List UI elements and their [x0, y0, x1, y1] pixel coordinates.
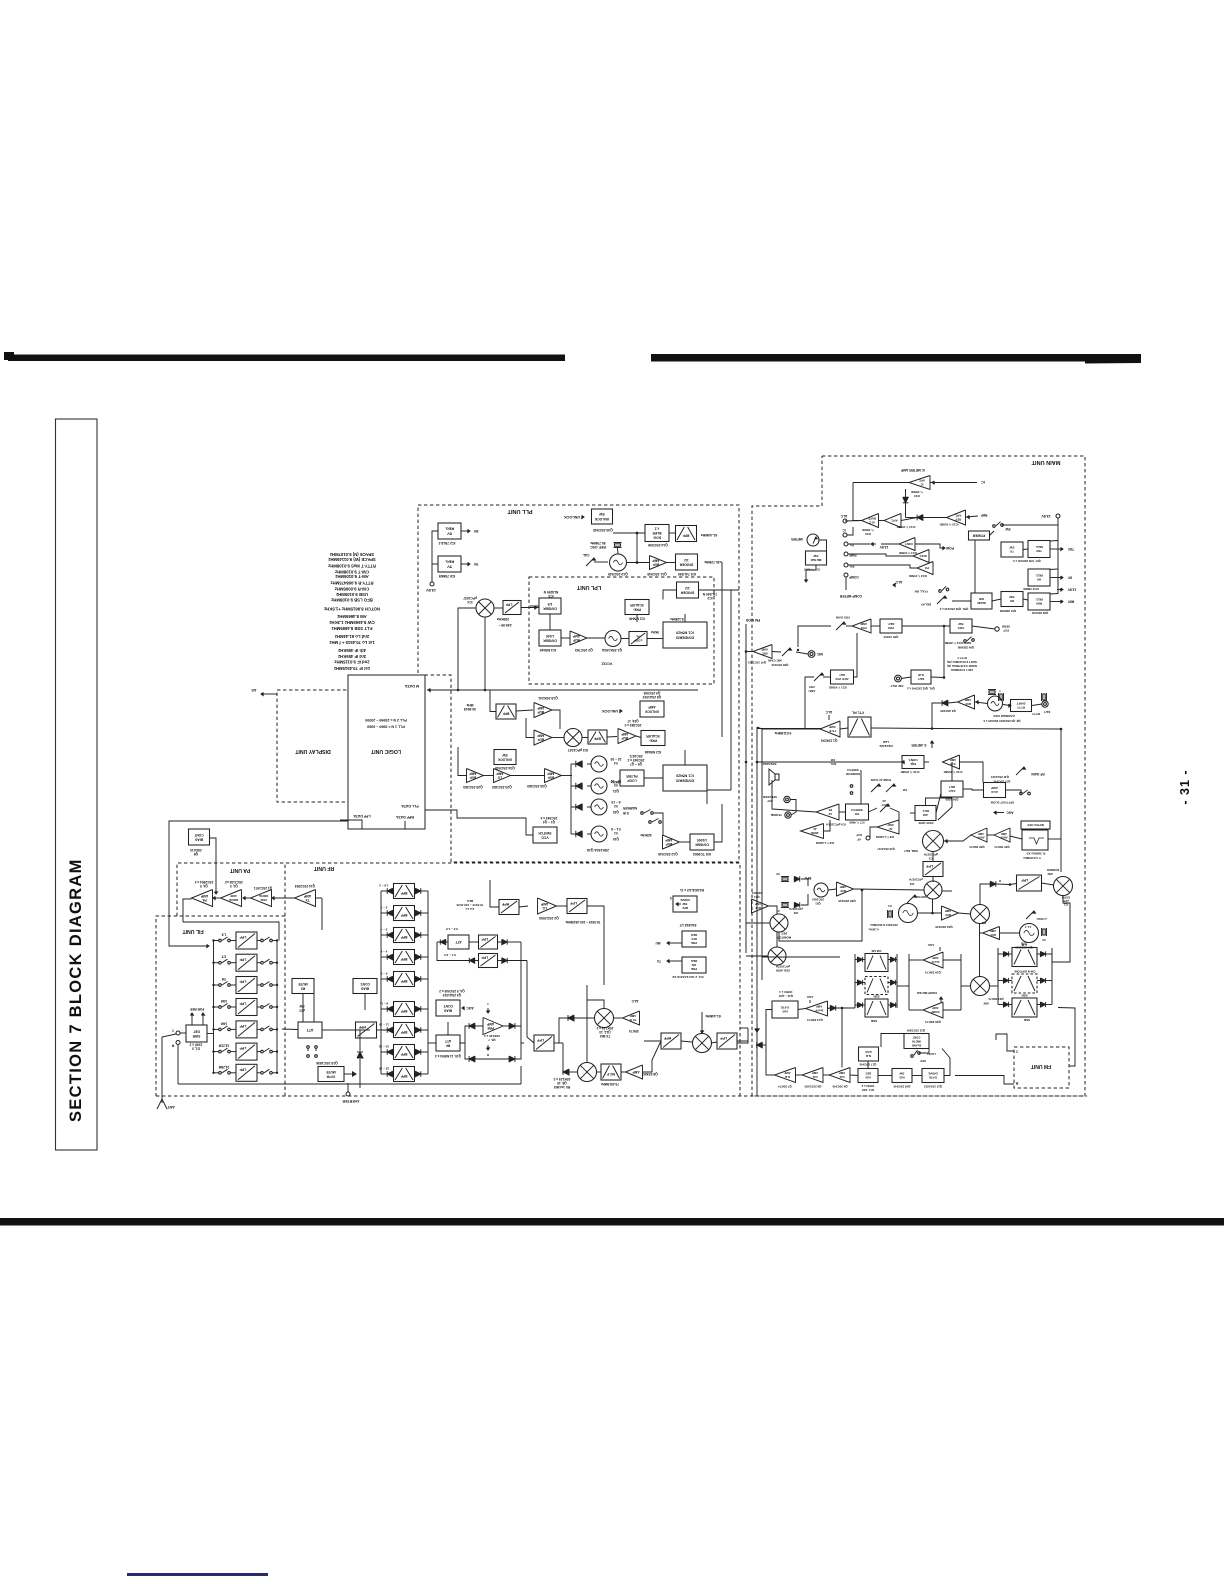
label UNLOCK PLL top [564, 515, 584, 519]
wire 13.8V rail main [1023, 518, 1058, 600]
label IC2 b [981, 921, 986, 925]
label IC3 NL8290 N [543, 590, 558, 598]
BPF 61.44MHz [676, 526, 697, 542]
po amp IC13c [917, 562, 933, 575]
label MONITOR DET [776, 907, 803, 939]
svg-text:IC10 ¼ 4558D: IC10 ¼ 4558D [944, 770, 963, 774]
wire swr to lpf bank [207, 1033, 214, 1035]
svg-text:IC5 74LS90: IC5 74LS90 [678, 572, 696, 576]
label band 3.5 [222, 955, 227, 959]
svg-text:AGC: AGC [806, 995, 814, 999]
ssb mod mixer [768, 947, 786, 965]
rail comp row [942, 890, 953, 892]
svg-text:IC4 M5449: IC4 M5449 [540, 648, 557, 652]
diode BPF 2 ~ 3 out [415, 910, 421, 916]
am if amp Q19 3SK74 [923, 952, 943, 968]
svg-text:AMP: AMP [536, 734, 544, 738]
svg-text:Q61, Q62 2SC945 x 2: Q61, Q62 2SC945 x 2 [907, 687, 935, 691]
marker amp Q64 2SK241 [752, 899, 769, 913]
label Q8 2SC1583 [804, 1085, 821, 1089]
pw sol labels [829, 758, 861, 804]
label Q2 2SC763 [575, 648, 593, 652]
terminal COMP [844, 573, 848, 577]
label 8V out [1050, 576, 1072, 580]
label 30.9615 MHz [464, 703, 476, 711]
svg-text:x 2: x 2 [655, 526, 660, 530]
page number -31- [1178, 769, 1192, 804]
svg-text:AMP: AMP [540, 902, 548, 906]
svg-text:SW: SW [299, 1004, 304, 1008]
svg-text:Q9 2SC945: Q9 2SC945 [832, 1085, 847, 1089]
label Q61 Q62 2SC945 [907, 687, 935, 691]
crystal REF OSC [614, 543, 622, 548]
label SEND IC12 [945, 641, 974, 650]
svg-text:SW: SW [1009, 595, 1014, 599]
meter symbol [807, 534, 819, 546]
svg-text:BPF: BPF [401, 1074, 408, 1078]
wire tx amp feed [321, 898, 323, 930]
FIL UNIT label [182, 928, 204, 934]
svg-text:Q25 2SC383: Q25 2SC383 [463, 785, 483, 789]
svg-text:320KHz: 320KHz [640, 833, 652, 837]
label KEY rtty [1031, 710, 1050, 716]
label Q24 3SK74 MIX [983, 997, 1003, 1006]
svg-text:T: T [1015, 1049, 1018, 1053]
af amp IC8 [877, 820, 899, 834]
svg-text:AMP: AMP [991, 786, 998, 790]
LPL UNIT boundary [529, 577, 714, 684]
unlock switch Q34 [494, 750, 516, 765]
vertical rails rf [521, 942, 534, 1043]
svg-text:AMP: AMP [762, 648, 768, 652]
label LOOP FIL [634, 635, 643, 643]
wire LPF 24,28M [212, 1072, 278, 1074]
diode BPF 4 ~ 6 out [415, 954, 421, 960]
divider 1/2 IC5 74LS90 [676, 554, 698, 570]
pre scaler LPL [625, 600, 649, 615]
terminal R fil [171, 1041, 180, 1048]
svg-text:AMP: AMP [632, 1070, 640, 1074]
5V output wire [461, 562, 478, 566]
send switch box [971, 593, 992, 609]
svg-text:RF: RF [446, 1043, 450, 1047]
diode BPF 8 ~ 11 out [415, 1006, 421, 1012]
svg-text:2SK125 x 2: 2SK125 x 2 [484, 1034, 500, 1038]
wire af rows [772, 760, 1021, 838]
svg-text:LPF: LPF [505, 603, 513, 607]
svg-text:µPC1037H: µPC1037H [776, 965, 790, 969]
svg-text:IC8 ¼ LA2902: IC8 ¼ LA2902 [815, 841, 834, 845]
bottom units boundary line [156, 1095, 1087, 1097]
svg-text:AMP: AMP [784, 1071, 790, 1075]
svg-text:AMP: AMP [840, 885, 846, 889]
blue pen underline mark [127, 1573, 268, 1576]
svg-text:SHIFT: SHIFT [1016, 701, 1025, 705]
svg-text:IC8 ¼ LA2902: IC8 ¼ LA2902 [875, 835, 894, 839]
svg-text:CONT.: CONT. [908, 758, 917, 762]
diode BPF 3 ~ 4 in [387, 932, 393, 938]
wire 1st lo chain [490, 880, 604, 930]
svg-text:BPF: BPF [401, 979, 408, 983]
wire fil bottom run [178, 1045, 521, 1084]
wire VCO V2 [571, 806, 591, 808]
svg-text:3rd IF 455KHz: 3rd IF 455KHz [338, 654, 366, 659]
bus column C [998, 948, 1052, 1005]
svg-text:BPF: BPF [401, 935, 408, 939]
label ANT [167, 1105, 175, 1109]
svg-text:5.12MHz: 5.12MHz [670, 617, 684, 621]
diode BPF 1.8 ~ 2 out [415, 888, 421, 894]
speaker symbol [769, 769, 779, 785]
terminal 13.8V main [1056, 514, 1060, 518]
switch LPF 10M out [261, 1004, 273, 1009]
label 230KHz [497, 617, 510, 621]
svg-text:BUFF: BUFF [868, 517, 876, 521]
label SSB colA [870, 1019, 877, 1023]
svg-text:LPF: LPF [481, 956, 489, 960]
BPF 8 ~ 11 [394, 1002, 415, 1017]
oscillator Q10 2SC945 [610, 554, 627, 571]
svg-text:Q35 3SK74: Q35 3SK74 [994, 845, 1009, 849]
svg-text:IC14 ¼ 4558D: IC14 ¼ 4558D [897, 525, 916, 529]
svg-text:BPF: BPF [401, 913, 408, 917]
LPF bal mix [1017, 875, 1042, 891]
wire ic meter in [930, 480, 985, 484]
label IC2 78L8.2 [439, 541, 456, 545]
VCO oscillator V2 Q20 [591, 799, 607, 815]
svg-text:X2: X2 [776, 872, 780, 876]
svg-text:RTTY-T MaS 9.0108MHz: RTTY-T MaS 9.0108MHz [328, 564, 376, 569]
LOGIC UNIT PLL data text [365, 718, 407, 729]
svg-text:AMP: AMP [1001, 832, 1007, 836]
svg-text:RTTY: RTTY [1031, 712, 1040, 716]
svg-text:AMP: AMP [496, 772, 504, 776]
section title box [56, 419, 98, 1150]
label 5.12MHz [670, 617, 684, 621]
svg-text:ATT: ATT [455, 940, 461, 944]
tx if amp Q1 2SK241 [820, 721, 840, 737]
wire rf to main link [737, 1028, 748, 1043]
svg-text:4th IF 455KHz: 4th IF 455KHz [338, 648, 366, 653]
diode BPF 22 ~ 30 in [387, 1071, 393, 1077]
label IC7 4066 [804, 568, 820, 572]
diode BPF 15 ~ 22 out [415, 1049, 421, 1055]
rail main top horizontal [762, 728, 821, 730]
svg-text:14M: 14M [221, 1021, 228, 1025]
crystal X6 [999, 693, 1004, 701]
diode balmix [990, 881, 996, 887]
label Q7 3SK74 [778, 1085, 792, 1089]
svg-text:T: T [171, 1028, 174, 1032]
label Q8 2SK61 rf [642, 1072, 658, 1076]
label AGC nb [806, 995, 814, 1003]
label Q17 2SC945 [859, 1063, 876, 1067]
label Q1 2SC1971 [254, 886, 273, 890]
RF ATT Q10 Q11 [436, 1035, 460, 1051]
svg-text:1S90 x 2: 1S90 x 2 [189, 1042, 202, 1046]
svg-text:IC: IC [981, 480, 985, 484]
switch UNLOCK SW Q33 [592, 509, 613, 524]
label IC14 4558D apc [897, 525, 916, 529]
svg-text:IC11 ¼ 4558D: IC11 ¼ 4558D [829, 686, 847, 690]
svg-text:LPF: LPF [536, 1038, 544, 1042]
svg-text:CW 8.4665MHz 1.3KHz: CW 8.4665MHz 1.3KHz [329, 620, 374, 625]
svg-text:Q11 2SC945: Q11 2SC945 [647, 572, 667, 576]
wire divider15 to mixer path [530, 605, 539, 607]
label 13.8V mid arrow [871, 542, 888, 549]
svg-text:IC6 TC9002: IC6 TC9002 [693, 852, 711, 856]
wire logic left run [169, 821, 348, 948]
wire osc-buf-divider [627, 562, 676, 564]
svg-text:D105 1K60: D105 1K60 [918, 821, 933, 825]
svg-text:Q34 2SC945: Q34 2SC945 [495, 766, 515, 770]
label Q11 2SC945 [647, 572, 667, 576]
label ALC rf [631, 999, 639, 1003]
label IC13 4558D po [909, 574, 927, 578]
label REF [966, 513, 987, 519]
agc det box [941, 781, 963, 797]
svg-text:R: R [171, 1044, 174, 1048]
label ATT SW [299, 1004, 305, 1012]
wire FM MOD rail [745, 624, 748, 953]
svg-text:61.44MHz: 61.44MHz [701, 533, 718, 537]
label AGC out [994, 811, 1014, 815]
tx mixer 2 main [971, 905, 990, 924]
wire mic row [745, 626, 831, 654]
terminal SWR [844, 552, 857, 557]
svg-text:AGC: AGC [927, 943, 935, 947]
svg-text:WIDTH: WIDTH [912, 1040, 921, 1044]
svg-text:2nd IF 9.0115MHz: 2nd IF 9.0115MHz [334, 660, 369, 665]
svg-text:Q57, C56 2SC945 x 2: Q57, C56 2SC945 x 2 [1013, 559, 1041, 563]
LPF 1st LO [567, 899, 587, 914]
svg-text:AMP: AMP [978, 832, 984, 836]
svg-text:AMP: AMP [755, 902, 761, 906]
svg-text:REG.: REG. [1035, 545, 1043, 549]
switch pre onoff [649, 819, 662, 824]
RX 1st MIX Q8 Q10 [578, 1063, 597, 1082]
filter column A FM AM [865, 949, 888, 972]
receive led [879, 740, 892, 748]
wire colA 1008 [855, 1004, 897, 1006]
label SSB DET IC5 [904, 849, 938, 860]
wire CAL to osc [594, 561, 608, 563]
svg-text:AMP: AMP [965, 698, 971, 702]
svg-text:Q33 2SC945: Q33 2SC945 [593, 528, 613, 532]
label Q30 2SC945 [838, 899, 856, 903]
mixer IC4 uPC1037 PLL [476, 599, 494, 617]
RF UNIT boundary [285, 863, 740, 1096]
svg-text:Q1 2SC1971: Q1 2SC1971 [254, 886, 273, 890]
svg-text:ALC: ALC [825, 710, 832, 714]
svg-text:µPC1037H: µPC1037H [924, 853, 938, 857]
svg-text:BFO LSB 9.0108MHz: BFO LSB 9.0108MHz [331, 598, 373, 603]
label 30.72MHz [704, 560, 720, 564]
svg-text:+1.5KHz: +1.5KHz [1036, 917, 1048, 921]
bfo oscillator Q31 [814, 883, 828, 897]
BPF 30.96MHz [496, 704, 516, 719]
svg-text:BPF: BPF [594, 737, 601, 741]
wire mixer to LPF [494, 606, 539, 609]
svg-text:Q12 2SA1015: Q12 2SA1015 [923, 1085, 942, 1089]
svg-text:REG.: REG. [445, 560, 454, 564]
svg-text:AF: AF [857, 838, 861, 842]
svg-text:SWITCH: SWITCH [538, 831, 552, 835]
LPF 14M filter [236, 1021, 257, 1038]
wire drive rows [437, 942, 527, 961]
wire bpf bus [381, 891, 428, 1074]
svg-text:IC10 ¼ 4558D: IC10 ¼ 4558D [901, 770, 920, 774]
wire balmix [980, 883, 1070, 962]
label R balmix [999, 879, 1001, 883]
svg-text:AMP: AMP [665, 838, 673, 842]
wire BPF 15 ~ 22 [381, 1051, 428, 1053]
svg-text:CW-T 9.0108MHz: CW-T 9.0108MHz [335, 569, 369, 574]
label 76.5515-100.4515MHz [565, 920, 600, 924]
svg-text:Q10, 11 MI094 x 2: Q10, 11 MI094 x 2 [435, 1054, 461, 1058]
svg-text:0.1 ~ 8: 0.1 ~ 8 [611, 827, 621, 831]
svg-text:Q1 2SK241: Q1 2SK241 [820, 739, 837, 743]
monitor det mixer IC8 [770, 914, 788, 932]
svg-text:Q21: Q21 [613, 789, 619, 793]
diode bypass out [509, 1056, 515, 1062]
svg-text:20KHz: 20KHz [611, 780, 621, 784]
svg-text:DOU-: DOU- [653, 536, 661, 540]
label notch freqs [1023, 852, 1046, 861]
svg-text:Q13 2SC1845: Q13 2SC1845 [906, 1029, 925, 1033]
label FULL BK [914, 590, 928, 594]
switch LPF 3.5 out [261, 959, 273, 964]
svg-text:R. 392KHz XS: R. 392KHz XS [1027, 852, 1046, 856]
wire nb to colA [828, 1007, 856, 1010]
switch LPF 18,21M out [261, 1048, 273, 1053]
label band 8 ~ 11 [380, 1002, 389, 1006]
HPF 1st LO [499, 900, 519, 915]
regulator 8V REG IC2 [438, 523, 461, 539]
svg-text:AMP: AMP [932, 956, 938, 960]
label IC6 78M05 [439, 574, 456, 578]
squelch control IC10 [902, 756, 924, 769]
switch LPF 7M out [261, 982, 273, 987]
wire colA 985.5 [855, 982, 897, 984]
ANT symbol [157, 1093, 167, 1109]
svg-text:Q12 2SC945: Q12 2SC945 [658, 852, 678, 856]
oscillator Q39 2SC1815 [1020, 924, 1039, 943]
svg-text:SEND IC12 ¼ 4558D: SEND IC12 ¼ 4558D [945, 641, 972, 645]
wire txmix in [559, 1018, 595, 1043]
filter column C CW-N optional [1012, 974, 1037, 993]
svg-text:5V: 5V [473, 562, 478, 566]
buffer amp Q33 2SC383 [545, 769, 562, 783]
svg-text:SCALER: SCALER [646, 734, 660, 738]
svg-text:Q15 2SC1836: Q15 2SC1836 [316, 1061, 338, 1065]
svg-text:MU: MU [655, 941, 661, 945]
rail main left vertical [761, 729, 763, 980]
wire rf input run [282, 1029, 370, 1030]
switch send ext [964, 637, 975, 643]
svg-text:MIX: MIX [1047, 872, 1052, 876]
svg-text:+1.3KHz: +1.3KHz [868, 928, 880, 932]
RX 1st IF amp [626, 1065, 643, 1079]
wire BPF DATA [396, 815, 414, 829]
svg-text:Q14 2SC936: Q14 2SC936 [648, 543, 668, 547]
wire ssb osc chain [980, 924, 1020, 934]
wire LPF 18,21M [212, 1050, 278, 1052]
label EXT SPEAKER [762, 795, 777, 803]
svg-text:BIAS: BIAS [360, 986, 369, 990]
BPF 15 ~ 22 [394, 1045, 415, 1060]
wire marker divider row [654, 804, 722, 842]
label ALC xtl [825, 710, 832, 720]
wire vox row [846, 625, 995, 679]
svg-text:- 31 -: - 31 - [1178, 769, 1192, 804]
svg-text:EA1618-1/2 x 11: EA1618-1/2 x 11 [680, 888, 704, 892]
diode meter amp [903, 489, 909, 513]
label Q14 2SC2053 [295, 884, 315, 888]
label EA1618 1-2 x11 [680, 888, 704, 892]
svg-text:COMP METER: COMP METER [839, 594, 862, 598]
svg-text:X5: X5 [1042, 938, 1046, 942]
svg-text:ATT: ATT [445, 1039, 451, 1043]
diode preamp out [509, 1023, 515, 1029]
wire bfo [801, 879, 924, 905]
svg-text:REG.: REG. [445, 527, 454, 531]
label RF GAIN [1016, 767, 1045, 776]
tr switch IC7 [846, 804, 869, 820]
svg-text:RTTY-T: RTTY-T [957, 656, 967, 660]
svg-text:BPF: BPF [401, 1030, 408, 1034]
meter switch IC7 [806, 551, 827, 565]
svg-text:Q1 2SK192A: Q1 2SK192A [601, 648, 622, 652]
svg-text:DIVIDER: DIVIDER [679, 562, 693, 566]
label VCO2 [601, 662, 613, 667]
svg-text:Q51 2SD668: Q51 2SD668 [999, 609, 1016, 613]
wire colC 983.5 [998, 980, 1052, 982]
label EXT SEND [1002, 625, 1010, 633]
trimmer CAL [583, 553, 596, 566]
LPF 230KHz [503, 601, 521, 615]
tx amp Q14 2SC2053 [295, 890, 316, 907]
svg-text:239.99 ~: 239.99 ~ [498, 623, 511, 627]
terminal IC [842, 528, 847, 537]
svg-text:LPF: LPF [239, 1067, 247, 1071]
svg-text:DISPLAY UNIT: DISPLAY UNIT [294, 748, 330, 754]
wire LPF 7M [212, 984, 278, 986]
pre on reg box [682, 957, 706, 973]
LPF 10M filter [236, 999, 257, 1016]
label ALC arrow mid [893, 580, 902, 587]
wire VCO V3 [571, 785, 591, 787]
svg-text:3.5: 3.5 [222, 955, 227, 959]
svg-text:MIX: MIX [983, 1002, 988, 1006]
svg-text:DET: DET [949, 785, 955, 789]
oscillator VCO2 Q1 2SK192A [605, 631, 621, 647]
terminal EXT SPEAKER [784, 796, 790, 802]
alc buff amp [862, 514, 879, 528]
if mixer IC3 uPC1037H [924, 881, 942, 899]
svg-text:LOOP: LOOP [627, 778, 637, 782]
label Q64 2SK241 [752, 891, 763, 899]
pa af amp [816, 804, 839, 820]
label R8V out [1050, 600, 1074, 604]
wire mod mixers [746, 906, 777, 956]
label IC8 uLA2902 b [875, 835, 894, 839]
svg-text:µPC1037H: µPC1037H [909, 878, 923, 882]
label band 1.8 ~ 2 [379, 884, 389, 888]
svg-text:KEY: KEY [1043, 710, 1050, 714]
svg-text:FIL UNIT: FIL UNIT [182, 928, 204, 934]
label band 3 ~ 4 [380, 928, 387, 932]
